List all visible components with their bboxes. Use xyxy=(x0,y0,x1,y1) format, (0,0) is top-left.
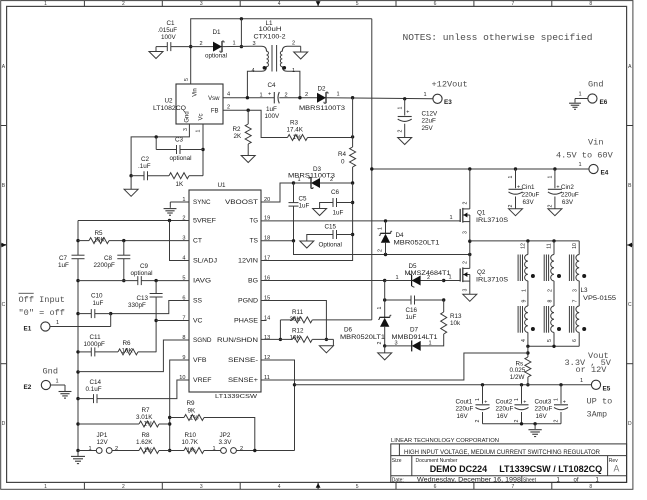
L3 phase dots col2 xyxy=(557,274,561,278)
svg-text:R9: R9 xyxy=(187,400,196,407)
svg-text:C5: C5 xyxy=(299,195,308,202)
wire Vin long vertical xyxy=(371,19,373,320)
svg-text:1uF: 1uF xyxy=(299,203,310,210)
svg-text:8: 8 xyxy=(589,484,592,490)
svg-text:1: 1 xyxy=(398,106,404,109)
svg-text:1: 1 xyxy=(233,41,236,47)
svg-text:D: D xyxy=(2,421,6,427)
svg-text:SYNC: SYNC xyxy=(193,199,211,206)
capacitor Cout2 xyxy=(521,385,523,404)
resistor Rs xyxy=(527,346,529,357)
resistor R9 xyxy=(170,417,184,419)
svg-text:1: 1 xyxy=(580,378,583,384)
wire C4 to D2 xyxy=(279,97,317,99)
svg-text:VP5-0155: VP5-0155 xyxy=(583,295,617,302)
svg-text:LT1339CSW / LT1082CQ: LT1339CSW / LT1082CQ xyxy=(499,464,602,474)
wire ground bus xyxy=(77,259,79,451)
svg-text:Vc: Vc xyxy=(199,113,205,120)
ground C12V xyxy=(398,138,412,145)
svg-text:4: 4 xyxy=(252,68,255,74)
diode D7 xyxy=(412,341,421,351)
wire TS line xyxy=(261,240,294,242)
svg-text:1: 1 xyxy=(337,92,340,98)
wire SL/ADJ to 5VREF xyxy=(170,221,190,261)
svg-text:220uF: 220uF xyxy=(496,406,514,413)
svg-text:16V: 16V xyxy=(457,413,469,420)
wire VBOOST jog xyxy=(261,183,294,202)
svg-text:LT1082CQ: LT1082CQ xyxy=(153,105,186,112)
wire Vin line xyxy=(372,168,589,170)
svg-text:Cin2: Cin2 xyxy=(561,184,574,191)
ground C2 R1 xyxy=(130,176,132,190)
svg-text:4: 4 xyxy=(521,339,527,342)
svg-text:U1: U1 xyxy=(218,182,227,189)
svg-text:1: 1 xyxy=(450,215,453,221)
resistor R10 xyxy=(170,450,184,452)
svg-text:VC: VC xyxy=(193,318,203,325)
svg-text:1: 1 xyxy=(298,177,301,183)
svg-text:1: 1 xyxy=(429,340,432,346)
svg-text:D: D xyxy=(628,421,632,427)
svg-text:1uF: 1uF xyxy=(58,262,69,269)
ground Cin2 xyxy=(548,209,562,216)
svg-text:9K: 9K xyxy=(188,407,197,414)
svg-text:E3: E3 xyxy=(444,99,452,106)
resistor R3 xyxy=(288,135,308,141)
svg-text:of: of xyxy=(574,478,579,484)
ground R2 xyxy=(241,156,255,163)
wire R3 to 12V rail xyxy=(308,137,353,139)
svg-text:1: 1 xyxy=(196,129,202,132)
ground L1 secondary xyxy=(294,52,308,59)
svg-text:+12Vout: +12Vout xyxy=(432,80,468,90)
svg-text:3: 3 xyxy=(183,128,189,131)
svg-text:Vin: Vin xyxy=(588,138,603,148)
svg-text:R12: R12 xyxy=(292,327,304,334)
svg-text:1K: 1K xyxy=(176,181,185,188)
svg-text:330pF: 330pF xyxy=(128,302,146,309)
capacitor C16 xyxy=(410,296,412,305)
wire JP2 to sense node xyxy=(236,450,294,452)
svg-text:Sheet: Sheet xyxy=(523,477,537,483)
svg-text:7: 7 xyxy=(512,1,515,7)
title block frame xyxy=(391,444,627,483)
wire PGND jog xyxy=(261,301,326,340)
svg-text:2: 2 xyxy=(463,201,469,204)
svg-text:2: 2 xyxy=(398,129,404,132)
svg-text:1: 1 xyxy=(396,275,399,281)
svg-text:C14: C14 xyxy=(90,379,102,386)
capacitor C14 xyxy=(78,398,94,400)
svg-text:PGND: PGND xyxy=(238,298,258,305)
svg-text:2: 2 xyxy=(547,204,553,207)
ground Cin1 xyxy=(509,209,523,216)
svg-text:R7: R7 xyxy=(142,407,151,414)
svg-text:10k: 10k xyxy=(450,320,461,327)
svg-text:E4: E4 xyxy=(601,169,609,176)
wire 12V vertical xyxy=(352,98,354,137)
svg-text:3: 3 xyxy=(573,289,579,292)
diode D1 xyxy=(213,42,222,52)
svg-text:Vin: Vin xyxy=(193,88,199,97)
wire U2 Vc pin xyxy=(202,124,204,176)
ground Cout xyxy=(534,424,536,429)
svg-text:1: 1 xyxy=(579,92,582,98)
capacitor C5 xyxy=(293,183,295,203)
capacitor C1 xyxy=(166,42,168,51)
svg-text:E1: E1 xyxy=(24,325,32,332)
svg-text:1uF: 1uF xyxy=(93,300,104,307)
title block rows xyxy=(391,455,627,457)
border row ticks xyxy=(1,125,7,127)
svg-text:3: 3 xyxy=(463,231,469,234)
svg-text:2: 2 xyxy=(427,275,430,281)
svg-text:R6: R6 xyxy=(123,340,132,347)
svg-text:C: C xyxy=(628,302,632,308)
svg-text:C10: C10 xyxy=(91,292,103,299)
svg-text:16V: 16V xyxy=(497,413,509,420)
L3 phase dots col1 xyxy=(531,274,535,278)
wire 5VREF line xyxy=(78,220,189,222)
wire U2 Gnd pin xyxy=(131,124,189,176)
wire Q2 drain xyxy=(469,255,471,269)
svg-text:2: 2 xyxy=(330,177,333,183)
svg-text:Cin1: Cin1 xyxy=(522,184,535,191)
svg-text:1%: 1% xyxy=(144,447,154,454)
ground E2 xyxy=(51,384,66,386)
wire +12V rail to E3 xyxy=(326,98,433,99)
wire D3 line left xyxy=(294,182,312,184)
svg-text:JP1: JP1 xyxy=(97,432,108,439)
svg-text:Off Input: Off Input xyxy=(19,295,65,305)
svg-text:VFB: VFB xyxy=(193,357,207,364)
svg-text:IRL3710S: IRL3710S xyxy=(476,276,508,283)
svg-text:5: 5 xyxy=(547,339,553,342)
svg-text:10: 10 xyxy=(572,243,578,249)
capacitor C9 xyxy=(137,276,139,285)
svg-text:9: 9 xyxy=(521,299,527,302)
svg-text:2: 2 xyxy=(514,419,520,422)
transformer L3 winding 2 xyxy=(553,241,555,255)
svg-text:C16: C16 xyxy=(406,307,418,314)
resistor R4 xyxy=(352,137,354,147)
svg-text:or 12V: or 12V xyxy=(576,365,608,375)
svg-text:A: A xyxy=(614,464,620,474)
svg-text:MBRS1100T3: MBRS1100T3 xyxy=(288,173,336,180)
svg-text:3: 3 xyxy=(395,340,398,346)
svg-text:U2: U2 xyxy=(165,97,174,104)
wire CT line xyxy=(109,240,189,242)
svg-text:"0" = off: "0" = off xyxy=(19,308,65,318)
svg-text:D7: D7 xyxy=(410,327,419,334)
svg-text:2: 2 xyxy=(463,261,469,264)
svg-text:SL/ADJ: SL/ADJ xyxy=(193,258,217,265)
resistor R1 xyxy=(169,173,189,179)
svg-text:SS: SS xyxy=(193,298,202,305)
svg-text:Size: Size xyxy=(392,458,402,464)
svg-text:1: 1 xyxy=(547,175,553,178)
svg-text:7: 7 xyxy=(512,484,515,490)
svg-text:Cout3: Cout3 xyxy=(535,398,552,405)
svg-text:IRL3710S: IRL3710S xyxy=(476,217,508,224)
ground C15 xyxy=(300,241,314,248)
capacitor C11 xyxy=(78,351,91,353)
wire transformer feed xyxy=(470,240,579,242)
svg-text:R4: R4 xyxy=(338,151,347,158)
svg-text:3Amp: 3Amp xyxy=(587,410,608,420)
svg-text:.1uF: .1uF xyxy=(138,163,151,170)
svg-text:R8: R8 xyxy=(142,432,151,439)
svg-text:C15: C15 xyxy=(325,223,337,230)
svg-text:1.62K: 1.62K xyxy=(136,439,153,446)
svg-text:Date:: Date: xyxy=(392,477,404,483)
svg-text:1: 1 xyxy=(89,446,92,452)
svg-text:R3: R3 xyxy=(290,119,299,126)
svg-text:3: 3 xyxy=(200,484,203,490)
capacitor C6 xyxy=(337,202,353,204)
svg-text:1uF: 1uF xyxy=(406,314,417,321)
svg-text:5: 5 xyxy=(356,1,359,7)
border centre arrow left xyxy=(1,244,7,246)
jumper JP2 xyxy=(221,448,227,454)
svg-text:optional: optional xyxy=(131,270,153,277)
svg-text:1: 1 xyxy=(56,320,59,326)
svg-text:1: 1 xyxy=(521,289,527,292)
wire TG line xyxy=(261,220,460,222)
inductor L1 secondary winding xyxy=(280,46,300,97)
svg-text:LINEAR TECHNOLOGY CORPORATION: LINEAR TECHNOLOGY CORPORATION xyxy=(391,438,499,444)
svg-text:R2: R2 xyxy=(233,126,242,133)
wire VFB divider feed xyxy=(170,360,189,451)
ground E6 xyxy=(575,98,588,100)
svg-text:C3: C3 xyxy=(175,136,184,143)
capacitor C8 xyxy=(123,241,125,256)
svg-text:JP2: JP2 xyxy=(220,432,231,439)
wire SGND jog xyxy=(78,340,189,372)
svg-text:4.5V to 60V: 4.5V to 60V xyxy=(556,151,614,161)
svg-text:2200pF: 2200pF xyxy=(94,262,116,269)
wire D6 to ground xyxy=(384,327,386,346)
svg-text:LT1339CSW: LT1339CSW xyxy=(215,394,258,400)
resistor R7 xyxy=(78,423,139,425)
diode D5 zener xyxy=(412,276,421,286)
wire SENSE- line xyxy=(261,360,295,451)
capacitor Cin1 xyxy=(515,169,517,188)
svg-text:VREF: VREF xyxy=(193,377,212,384)
svg-text:2: 2 xyxy=(475,419,481,422)
svg-text:1: 1 xyxy=(579,162,582,168)
svg-text:C11: C11 xyxy=(90,334,102,341)
wire VC line xyxy=(156,320,189,322)
wire Vin top rail xyxy=(191,19,372,84)
svg-text:+: + xyxy=(406,110,409,116)
svg-text:1: 1 xyxy=(377,306,383,309)
diode D3 xyxy=(311,178,320,188)
capacitor Cout1 xyxy=(482,385,484,404)
capacitor C12V xyxy=(404,99,406,116)
wire VREF jog xyxy=(97,380,189,399)
svg-text:1: 1 xyxy=(44,1,47,7)
svg-text:63V: 63V xyxy=(562,199,574,206)
svg-text:D1: D1 xyxy=(213,29,222,36)
svg-text:+: + xyxy=(563,399,566,405)
svg-text:C6: C6 xyxy=(331,189,340,196)
svg-text:NOTES: unless otherwise specif: NOTES: unless otherwise specified xyxy=(403,32,593,43)
svg-text:100V: 100V xyxy=(161,34,177,41)
svg-text:1: 1 xyxy=(44,484,47,490)
capacitor C3 xyxy=(155,137,157,150)
capacitor C2 xyxy=(131,175,144,177)
svg-text:DEMO DC224: DEMO DC224 xyxy=(430,464,488,474)
diode D2 xyxy=(317,93,326,103)
svg-text:2: 2 xyxy=(200,41,203,47)
svg-text:CTX100-2: CTX100-2 xyxy=(254,34,287,41)
svg-text:1: 1 xyxy=(475,398,481,401)
svg-text:16V: 16V xyxy=(536,413,548,420)
resistor R2 xyxy=(247,110,249,124)
svg-text:12: 12 xyxy=(521,243,527,249)
L3 phase dots col3 xyxy=(582,274,586,278)
svg-text:FB: FB xyxy=(211,109,219,115)
svg-text:2: 2 xyxy=(548,289,554,292)
svg-text:2: 2 xyxy=(122,484,125,490)
wire Q1 drain xyxy=(469,169,471,209)
svg-text:Gnd: Gnd xyxy=(185,111,191,122)
wire Q2 source xyxy=(469,275,471,295)
ground main bus xyxy=(77,451,79,457)
capacitor C13 xyxy=(155,281,157,294)
capacitor C15 xyxy=(337,234,353,236)
svg-text:1: 1 xyxy=(378,227,384,230)
svg-text:C1: C1 xyxy=(167,20,176,27)
svg-text:C9: C9 xyxy=(140,263,149,270)
svg-text:TG: TG xyxy=(250,218,259,225)
transistor Q2 xyxy=(459,268,461,281)
svg-text:RUN/SHDN: RUN/SHDN xyxy=(217,337,258,344)
svg-text:3.3V: 3.3V xyxy=(219,439,233,446)
wire C1 to D1 xyxy=(191,46,213,48)
svg-text:2: 2 xyxy=(554,419,560,422)
svg-text:.015uF: .015uF xyxy=(158,27,178,34)
capacitor C4 xyxy=(273,92,275,103)
svg-text:Wednesday, December 16, 1998: Wednesday, December 16, 1998 xyxy=(417,477,522,484)
transformer L3 winding 1 xyxy=(527,241,529,255)
ground U1 SYNC xyxy=(170,201,189,203)
svg-text:Cout2: Cout2 xyxy=(496,398,513,405)
svg-text:BG: BG xyxy=(248,278,258,285)
svg-text:6: 6 xyxy=(572,339,578,342)
svg-text:Q2: Q2 xyxy=(477,269,486,276)
resistor R6 xyxy=(118,349,138,355)
wire D1 to L1 xyxy=(222,45,251,47)
svg-text:4: 4 xyxy=(227,92,230,98)
svg-text:Cout1: Cout1 xyxy=(456,398,473,405)
svg-text:3: 3 xyxy=(253,41,256,47)
wire SENSE+ line xyxy=(261,353,528,380)
svg-text:1: 1 xyxy=(260,93,263,99)
svg-text:D5: D5 xyxy=(409,263,418,270)
svg-text:E5: E5 xyxy=(603,385,611,392)
resistor R13 xyxy=(443,300,445,312)
svg-text:R10: R10 xyxy=(185,432,197,439)
wire 12VIN vertical xyxy=(261,183,353,261)
svg-text:63V: 63V xyxy=(523,199,535,206)
ground Q2 xyxy=(463,294,477,301)
wire JP1 R8 line xyxy=(78,450,96,452)
svg-text:+: + xyxy=(484,399,487,405)
svg-text:E6: E6 xyxy=(600,99,608,106)
svg-text:+: + xyxy=(268,91,271,97)
svg-text:CT: CT xyxy=(193,238,202,245)
wire SS jog xyxy=(111,301,189,314)
svg-text:C8: C8 xyxy=(104,255,113,262)
svg-text:2: 2 xyxy=(122,1,125,7)
svg-text:+: + xyxy=(517,184,520,190)
border centre arrow bottom xyxy=(317,482,319,489)
svg-text:+: + xyxy=(523,399,526,405)
svg-text:6: 6 xyxy=(434,484,437,490)
svg-text:10K: 10K xyxy=(122,347,134,354)
svg-text:5: 5 xyxy=(356,484,359,490)
svg-text:2: 2 xyxy=(378,249,384,252)
wire D7 cathode xyxy=(385,345,412,347)
capacitor Cout3 xyxy=(560,385,562,404)
border column ticks xyxy=(83,1,85,7)
svg-text:220uF: 220uF xyxy=(561,191,579,198)
wire C16 line xyxy=(385,299,411,301)
svg-text:8: 8 xyxy=(548,299,554,302)
svg-text:220uF: 220uF xyxy=(522,191,540,198)
svg-text:SENSE-: SENSE- xyxy=(228,357,258,364)
svg-text:100uH: 100uH xyxy=(259,26,283,33)
svg-text:12V: 12V xyxy=(97,439,109,446)
svg-text:MBR0520LT1: MBR0520LT1 xyxy=(340,334,386,341)
svg-text:3: 3 xyxy=(463,288,469,291)
svg-text:100V: 100V xyxy=(265,113,281,120)
svg-text:Optional: Optional xyxy=(319,241,342,248)
svg-text:Q1: Q1 xyxy=(477,209,486,216)
svg-text:7: 7 xyxy=(573,299,579,302)
svg-text:C: C xyxy=(2,302,6,308)
svg-text:1: 1 xyxy=(508,175,514,178)
svg-text:R13: R13 xyxy=(450,313,462,320)
ground D6 xyxy=(378,353,392,360)
wire top rail tap to D1 line xyxy=(240,19,242,47)
wire FB line xyxy=(223,110,288,137)
svg-text:MBR0520LT1: MBR0520LT1 xyxy=(394,240,441,247)
svg-text:Vsw: Vsw xyxy=(208,96,220,102)
svg-text:1%: 1% xyxy=(293,134,303,141)
svg-text:1000pF: 1000pF xyxy=(84,341,106,348)
ground R12 xyxy=(332,339,334,345)
resistor R11 xyxy=(279,320,281,340)
wire Cout ground line xyxy=(483,423,562,425)
svg-text:0: 0 xyxy=(341,159,345,166)
diode D4 xyxy=(385,221,387,233)
svg-text:2: 2 xyxy=(292,41,295,47)
svg-text:3: 3 xyxy=(200,1,203,7)
resistor R12 xyxy=(261,338,292,340)
svg-text:220uF: 220uF xyxy=(456,406,474,413)
wire C10 line xyxy=(78,313,91,315)
svg-text:MBRS1100T3: MBRS1100T3 xyxy=(299,105,346,112)
svg-text:UP to: UP to xyxy=(587,397,613,407)
svg-text:VBOOST: VBOOST xyxy=(225,199,258,206)
transformer L3 winding 3 xyxy=(578,241,580,255)
svg-text:8: 8 xyxy=(589,1,592,7)
ic U2 box xyxy=(176,84,223,124)
diode D6 xyxy=(380,318,389,327)
